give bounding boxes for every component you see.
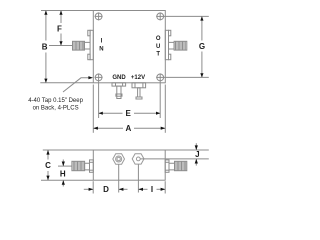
D left ext (body edge down) — [92, 181, 94, 193]
A left — [93, 127, 98, 130]
A right — [161, 127, 166, 130]
H centerline extension — [58, 165, 72, 167]
svg-text:B: B — [42, 42, 48, 51]
D right shaft — [119, 188, 128, 190]
E right — [156, 112, 160, 115]
bottom-right connector barrel — [175, 161, 187, 170]
IN connector neck — [85, 42, 91, 49]
pin2 extension down — [137, 164, 139, 192]
pin2 centerline extension right (J) — [140, 158, 209, 160]
leader arrow — [88, 76, 93, 79]
G down — [200, 73, 203, 77]
pin1 extension down — [118, 164, 120, 192]
D right-pointing — [89, 188, 94, 191]
IN connector flange plate — [90, 30, 93, 59]
dimension line F — [60, 11, 62, 24]
C bottom extension — [41, 179, 93, 181]
svg-text:I: I — [151, 185, 153, 194]
bottom-left connector neck — [85, 163, 90, 170]
svg-text:C: C — [45, 161, 51, 170]
H up (to bottom) — [62, 180, 65, 185]
J down — [195, 145, 198, 150]
bottom-right connector plate — [165, 160, 169, 172]
svg-text:4-40 Tap 0.15" Deep: 4-40 Tap 0.15" Deep — [28, 98, 83, 104]
svg-text:H: H — [60, 170, 66, 179]
extension line G bottom (screw centerline) — [164, 76, 209, 78]
dimension line B — [45, 11, 47, 41]
svg-text:A: A — [126, 124, 132, 133]
IN connector flange tabs — [88, 30, 90, 36]
B down — [44, 79, 47, 83]
E left — [99, 112, 103, 115]
GND pin side view — [112, 83, 126, 86]
OUT connector flange tabs — [169, 30, 171, 36]
bottom-left connector plate — [90, 160, 94, 172]
J top extension — [165, 149, 209, 151]
svg-text:G: G — [199, 42, 205, 51]
dimension line A — [93, 127, 123, 129]
C up — [46, 150, 49, 155]
dimension line C — [47, 150, 49, 160]
C down — [46, 176, 49, 181]
svg-text:J: J — [195, 150, 199, 159]
IN connector barrel — [73, 41, 85, 50]
body top view — [93, 11, 165, 83]
H down (to centerline) — [62, 162, 65, 167]
OUT connector neck — [169, 42, 175, 49]
D left shaft — [84, 188, 93, 190]
extension line G top (screw centerline) — [164, 15, 209, 17]
hex pin 1 — [113, 154, 125, 164]
I segments — [138, 188, 147, 190]
bottom-right connector neck — [169, 163, 175, 170]
H arrows shafts — [62, 160, 64, 167]
D left-pointing — [119, 188, 124, 191]
screw BR — [156, 73, 164, 81]
I right ext — [164, 181, 166, 193]
svg-text:on Back, 4-PLCS: on Back, 4-PLCS — [33, 106, 79, 112]
screw TR — [156, 12, 164, 20]
svg-text:E: E — [126, 109, 132, 118]
G up — [200, 16, 203, 20]
body bottom view — [93, 150, 165, 180]
svg-text:D: D — [103, 185, 109, 194]
OUT connector barrel — [174, 41, 187, 50]
extension line top (B/F) — [41, 10, 93, 12]
extension line IN center — [49, 45, 72, 47]
OUT barrel threads — [176, 41, 186, 50]
screw BL — [95, 73, 103, 81]
A extension lines — [92, 85, 94, 133]
dimension line E — [99, 112, 123, 114]
arrowheads — [44, 11, 203, 191]
+12V pin side view — [132, 83, 146, 88]
svg-text:U: U — [156, 44, 160, 50]
C top extension — [43, 149, 94, 151]
IN barrel threads — [74, 41, 84, 50]
J up — [195, 159, 198, 164]
J shafts — [195, 143, 197, 150]
dimension line G — [201, 16, 203, 40]
B up — [44, 11, 47, 15]
extension line bottom of body left (B) — [40, 82, 93, 84]
hex pin 2 — [132, 154, 144, 164]
svg-text:+12V: +12V — [131, 75, 145, 81]
F up — [59, 11, 62, 15]
svg-text:T: T — [156, 52, 160, 58]
I left — [138, 188, 143, 191]
bottom-left connector barrel — [72, 161, 85, 170]
screw TL — [95, 12, 103, 20]
svg-text:GND: GND — [112, 75, 126, 81]
leader note — [63, 78, 89, 92]
svg-text:F: F — [57, 24, 62, 33]
E extension lines — [98, 81, 100, 118]
OUT connector flange plate — [165, 30, 168, 59]
svg-text:N: N — [99, 47, 103, 53]
I right — [161, 188, 166, 191]
svg-text:O: O — [156, 36, 161, 42]
F down — [59, 41, 62, 45]
